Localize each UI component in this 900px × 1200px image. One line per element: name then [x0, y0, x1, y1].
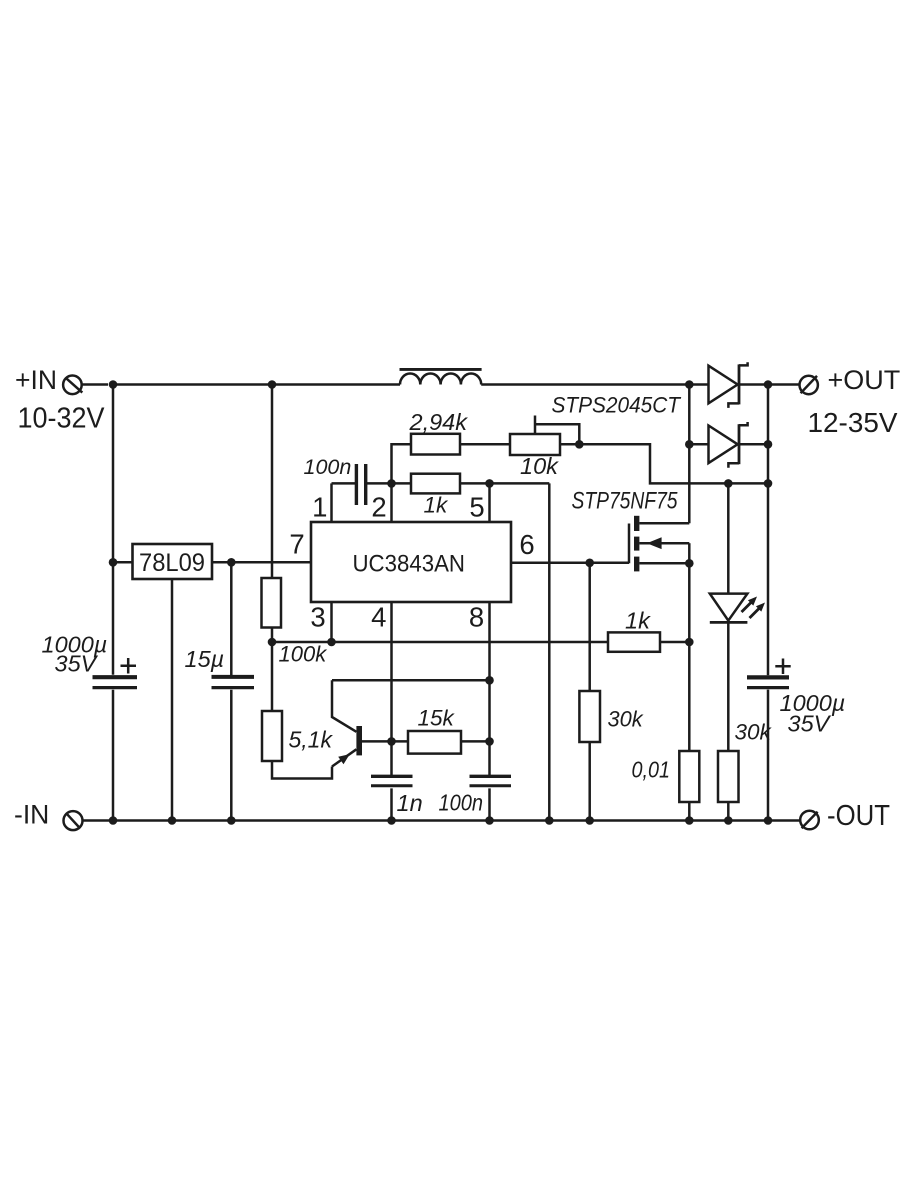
node rail 15u: [227, 816, 236, 825]
svg-text:8: 8: [469, 601, 484, 632]
wire Vcc to pin 7: [212, 561, 311, 564]
resistor 10k trimmer: [510, 434, 560, 455]
transistor Q2 MOSFET STP75NF75: [629, 516, 689, 572]
resistor 1k sense: [608, 632, 660, 651]
inductor: [400, 369, 482, 384]
wire top rail right: [481, 383, 708, 386]
resistor 5,1k: [262, 711, 282, 761]
resistor 30k mid: [579, 691, 600, 742]
wire LED drop: [727, 483, 730, 593]
resistor 100k: [262, 578, 282, 628]
wire D2 cathode: [739, 443, 768, 446]
wire pin 4: [390, 602, 393, 821]
wire D1 cathode to +OUT: [739, 383, 800, 386]
svg-text:4: 4: [371, 601, 386, 632]
svg-text:2: 2: [371, 491, 386, 522]
wire 0,01 to rail: [688, 802, 691, 821]
wire feedforward vertical: [271, 385, 274, 579]
wire bottom rail: [83, 819, 800, 822]
node rail 30k right: [724, 816, 733, 825]
node sense junction: [685, 638, 694, 647]
transistor Q1 PNP: [332, 680, 408, 766]
node input rail junction A: [109, 380, 118, 389]
wire 30k drop: [588, 563, 591, 821]
wire 15u vertical: [230, 562, 233, 820]
node switch top: [685, 380, 694, 389]
node pin3 junction: [327, 638, 336, 647]
wire 100k bottom: [271, 628, 274, 712]
svg-text:UC3843AN: UC3843AN: [353, 551, 466, 578]
wire 10k to feedback corner: [560, 444, 768, 483]
svg-text:0,01: 0,01: [632, 757, 671, 783]
node D2 cathode: [764, 440, 773, 449]
op-amp U1 UC3843AN box: [311, 522, 511, 602]
node mosfet source: [685, 559, 694, 568]
wire pin2 to 2,94k: [392, 444, 412, 483]
svg-text:3: 3: [310, 601, 325, 632]
svg-text:35V: 35V: [55, 651, 99, 677]
svg-text:7: 7: [289, 529, 304, 560]
node pin5 junction: [485, 479, 494, 488]
node 78L09 input: [109, 558, 118, 567]
svg-text:35V: 35V: [788, 711, 832, 737]
node collector pin8: [485, 676, 494, 685]
svg-text:6: 6: [519, 529, 534, 560]
wire top rail left: [113, 383, 400, 386]
resistor 30k right: [718, 751, 739, 802]
resistor 2,94k: [411, 434, 460, 455]
wire output vertical: [767, 385, 770, 821]
wire 78L09 input: [113, 561, 133, 564]
svg-text:1k: 1k: [625, 608, 651, 634]
node rail output cap: [764, 816, 773, 825]
node LED tap: [724, 479, 733, 488]
terminal +IN: [63, 376, 108, 395]
wire 30k right to rail: [727, 802, 730, 821]
capacitor 1n: [371, 776, 413, 786]
terminal -IN: [64, 811, 83, 830]
wire switch node vertical: [688, 385, 691, 524]
wire pin 3: [330, 602, 333, 642]
node D2 anode: [685, 440, 694, 449]
wire ground drop from pin5: [548, 483, 551, 820]
capacitor 100n bottom: [470, 776, 512, 786]
svg-text:2,94k: 2,94k: [409, 409, 469, 435]
wire 78L09 ground: [171, 579, 174, 821]
node rail input cap: [109, 816, 118, 825]
svg-text:1k: 1k: [424, 493, 450, 518]
capacitor 100n comp: [356, 464, 365, 505]
node rail 30k mid: [585, 816, 594, 825]
svg-text:+IN: +IN: [15, 365, 57, 395]
svg-text:10-32V: 10-32V: [18, 403, 105, 435]
node rail gnd drop: [545, 816, 554, 825]
node feedforward tap: [268, 380, 277, 389]
resistor 0,01: [679, 751, 699, 802]
wire comp row: [332, 482, 550, 485]
wire pin 5: [488, 483, 491, 522]
wire pin 1: [330, 483, 333, 522]
wire input vertical: [112, 385, 115, 821]
capacitor C-out 1000u 35V: [747, 659, 791, 688]
resistor 1k comp: [411, 474, 460, 494]
svg-text:-OUT: -OUT: [827, 800, 890, 832]
trimmer wiper arm: [535, 416, 579, 445]
capacitor C-in 1000u 35V: [93, 658, 138, 688]
node 15k pin8: [485, 737, 494, 746]
svg-text:100n: 100n: [439, 790, 484, 816]
wire LED to 30k: [727, 622, 730, 751]
node rail 100n: [485, 816, 494, 825]
svg-text:STPS2045CT: STPS2045CT: [552, 392, 683, 417]
wire pin 6 to gate: [511, 562, 629, 565]
diode D2 STPS2045CT half: [709, 422, 748, 468]
svg-text:30k: 30k: [735, 720, 773, 745]
node rail 0,01: [685, 816, 694, 825]
node wiper junction: [575, 440, 584, 449]
svg-text:1n: 1n: [397, 790, 423, 816]
node gate resistor tap: [585, 559, 594, 568]
resistor 15k: [408, 731, 461, 754]
wire D2 anode: [689, 443, 708, 446]
wire pin 2: [390, 483, 393, 522]
svg-text:-IN: -IN: [14, 800, 49, 830]
wire 2,94k to 10k: [460, 443, 510, 446]
svg-text:STP75NF75: STP75NF75: [572, 488, 679, 515]
wire emitter return: [272, 761, 332, 779]
diode D1 STPS2045CT half: [709, 362, 748, 408]
svg-text:5,1k: 5,1k: [289, 727, 334, 753]
wire 15k to pin8: [461, 740, 490, 743]
svg-text:1: 1: [312, 491, 327, 522]
svg-text:30k: 30k: [608, 707, 644, 732]
node 100k bottom: [268, 638, 277, 647]
svg-text:+OUT: +OUT: [828, 365, 900, 395]
terminal -OUT: [800, 811, 819, 830]
wire pin 8: [488, 602, 491, 821]
wire collector row: [332, 679, 490, 682]
svg-text:10k: 10k: [520, 453, 559, 479]
terminal +OUT: [800, 376, 818, 394]
node 15u tap: [227, 558, 236, 567]
diode LED: [710, 594, 765, 623]
node output feedback: [764, 479, 773, 488]
capacitor 15u: [212, 677, 255, 688]
node output top: [764, 380, 773, 389]
node base pin4: [387, 737, 396, 746]
svg-text:15k: 15k: [418, 706, 456, 731]
node rail 1n: [387, 816, 396, 825]
svg-text:100n: 100n: [304, 455, 352, 479]
regulator 78L09: [133, 544, 213, 579]
node pin2 junction: [387, 479, 396, 488]
svg-text:78L09: 78L09: [139, 549, 205, 577]
node rail 78L09 gnd: [168, 816, 177, 825]
wire current sense row: [272, 641, 689, 644]
svg-text:12-35V: 12-35V: [808, 407, 899, 438]
svg-text:5: 5: [469, 491, 484, 522]
wire source to sense: [688, 563, 691, 751]
svg-text:100k: 100k: [279, 642, 328, 667]
svg-text:15µ: 15µ: [185, 646, 225, 672]
